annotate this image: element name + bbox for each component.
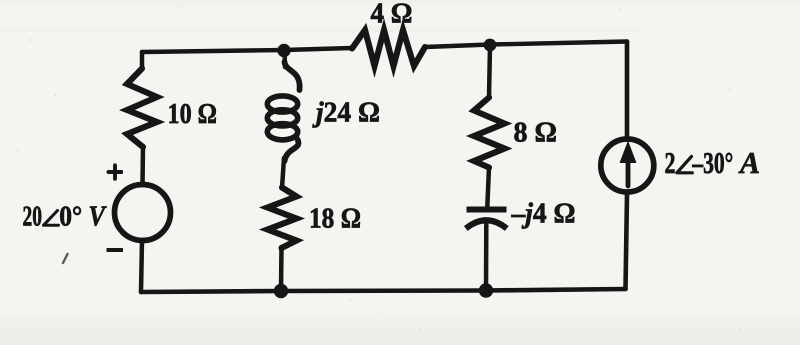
svg-text:20: 20 [23,201,43,233]
svg-text:V: V [89,201,108,233]
svg-text:–30°: –30° [692,146,734,180]
svg-text:10 Ω: 10 Ω [168,98,218,130]
svg-text:–j4 Ω: –j4 Ω [511,198,576,230]
svg-text:18 Ω: 18 Ω [309,203,361,235]
svg-text:0°: 0° [59,201,82,233]
svg-text:8 Ω: 8 Ω [514,117,558,149]
svg-text:j24 Ω: j24 Ω [312,97,380,129]
svg-text:2: 2 [665,146,676,180]
svg-text:A: A [738,146,760,180]
svg-text:4 Ω: 4 Ω [371,0,413,30]
